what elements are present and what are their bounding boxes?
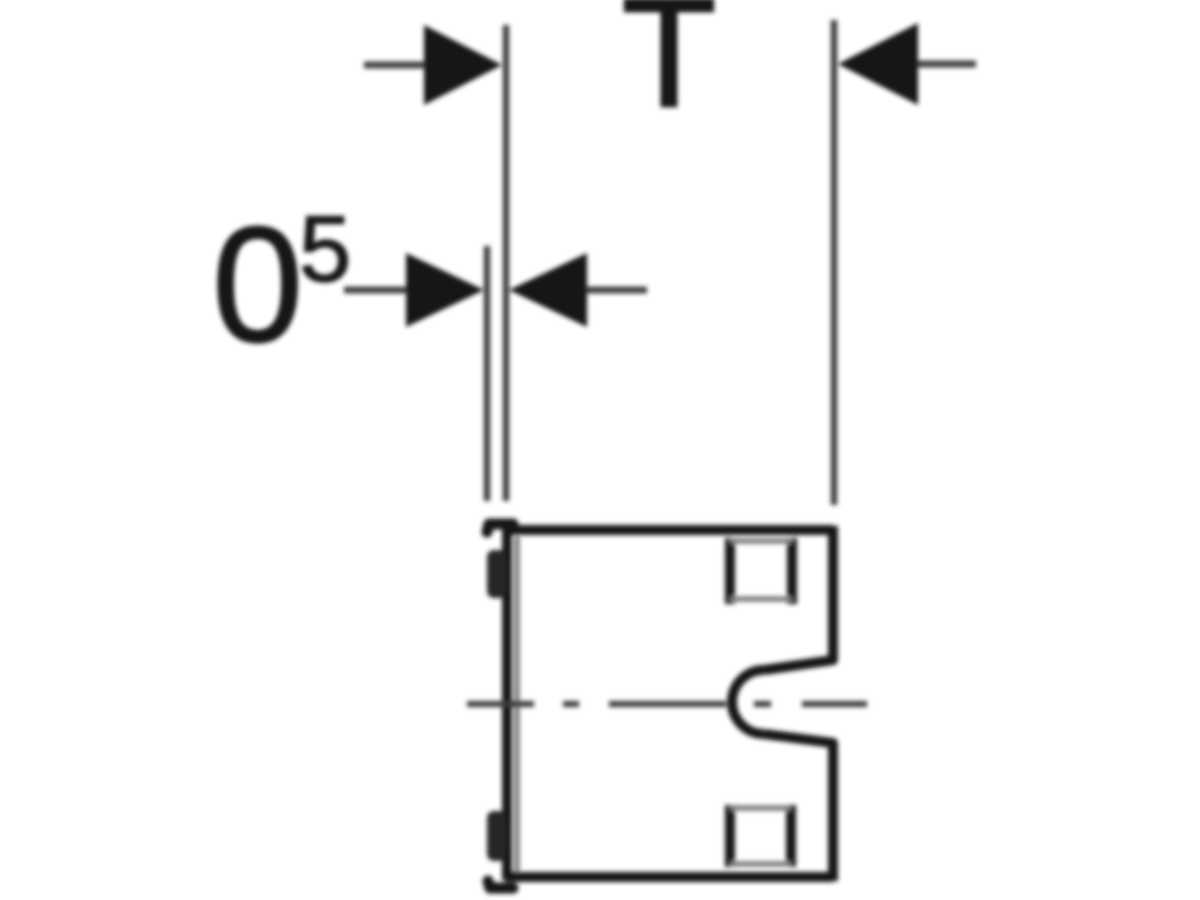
svg-text:T: T xyxy=(622,0,717,139)
centerline (dash-dot) xyxy=(467,701,534,707)
rail profile: right wall upper part + notch upper arm xyxy=(764,526,833,670)
upper square detail: thick vertical sides xyxy=(725,538,735,604)
lower square detail: thin horizontal lines xyxy=(730,805,791,811)
rail profile: notch lower arm + right wall lower part xyxy=(764,734,833,881)
svg-text:0: 0 xyxy=(212,193,303,376)
svg-text:5: 5 xyxy=(299,196,351,301)
extension line inner (x=487) xyxy=(484,246,491,501)
lower square detail: thick vertical sides xyxy=(725,805,735,867)
upper square detail: thin horizontal lines xyxy=(730,538,792,544)
top dimension arrow left (points right at x=506) xyxy=(364,62,430,69)
rail profile: bottom edge xyxy=(505,872,833,882)
extension line right (x=834) xyxy=(831,20,838,505)
extension line left (x=506) xyxy=(503,25,510,501)
top dimension arrow right (points left at x=834) xyxy=(915,61,976,68)
rail profile: bottom-left curled hook xyxy=(488,881,513,888)
rail profile: top-left curled hook xyxy=(487,524,513,532)
rail profile: left wall xyxy=(502,527,512,880)
notch arc (U opening right) xyxy=(732,670,764,734)
rail profile: inner sheet line (gray) xyxy=(514,536,520,872)
rail profile: top edge xyxy=(505,525,833,535)
small dimension arrow pointing right (0.5 dim, tip at x=484) xyxy=(344,287,410,294)
small dimension arrow pointing left (tip at x=509) xyxy=(584,287,647,294)
lower clip tab on left wall xyxy=(487,811,506,861)
upper clip tab on left wall xyxy=(487,550,506,598)
